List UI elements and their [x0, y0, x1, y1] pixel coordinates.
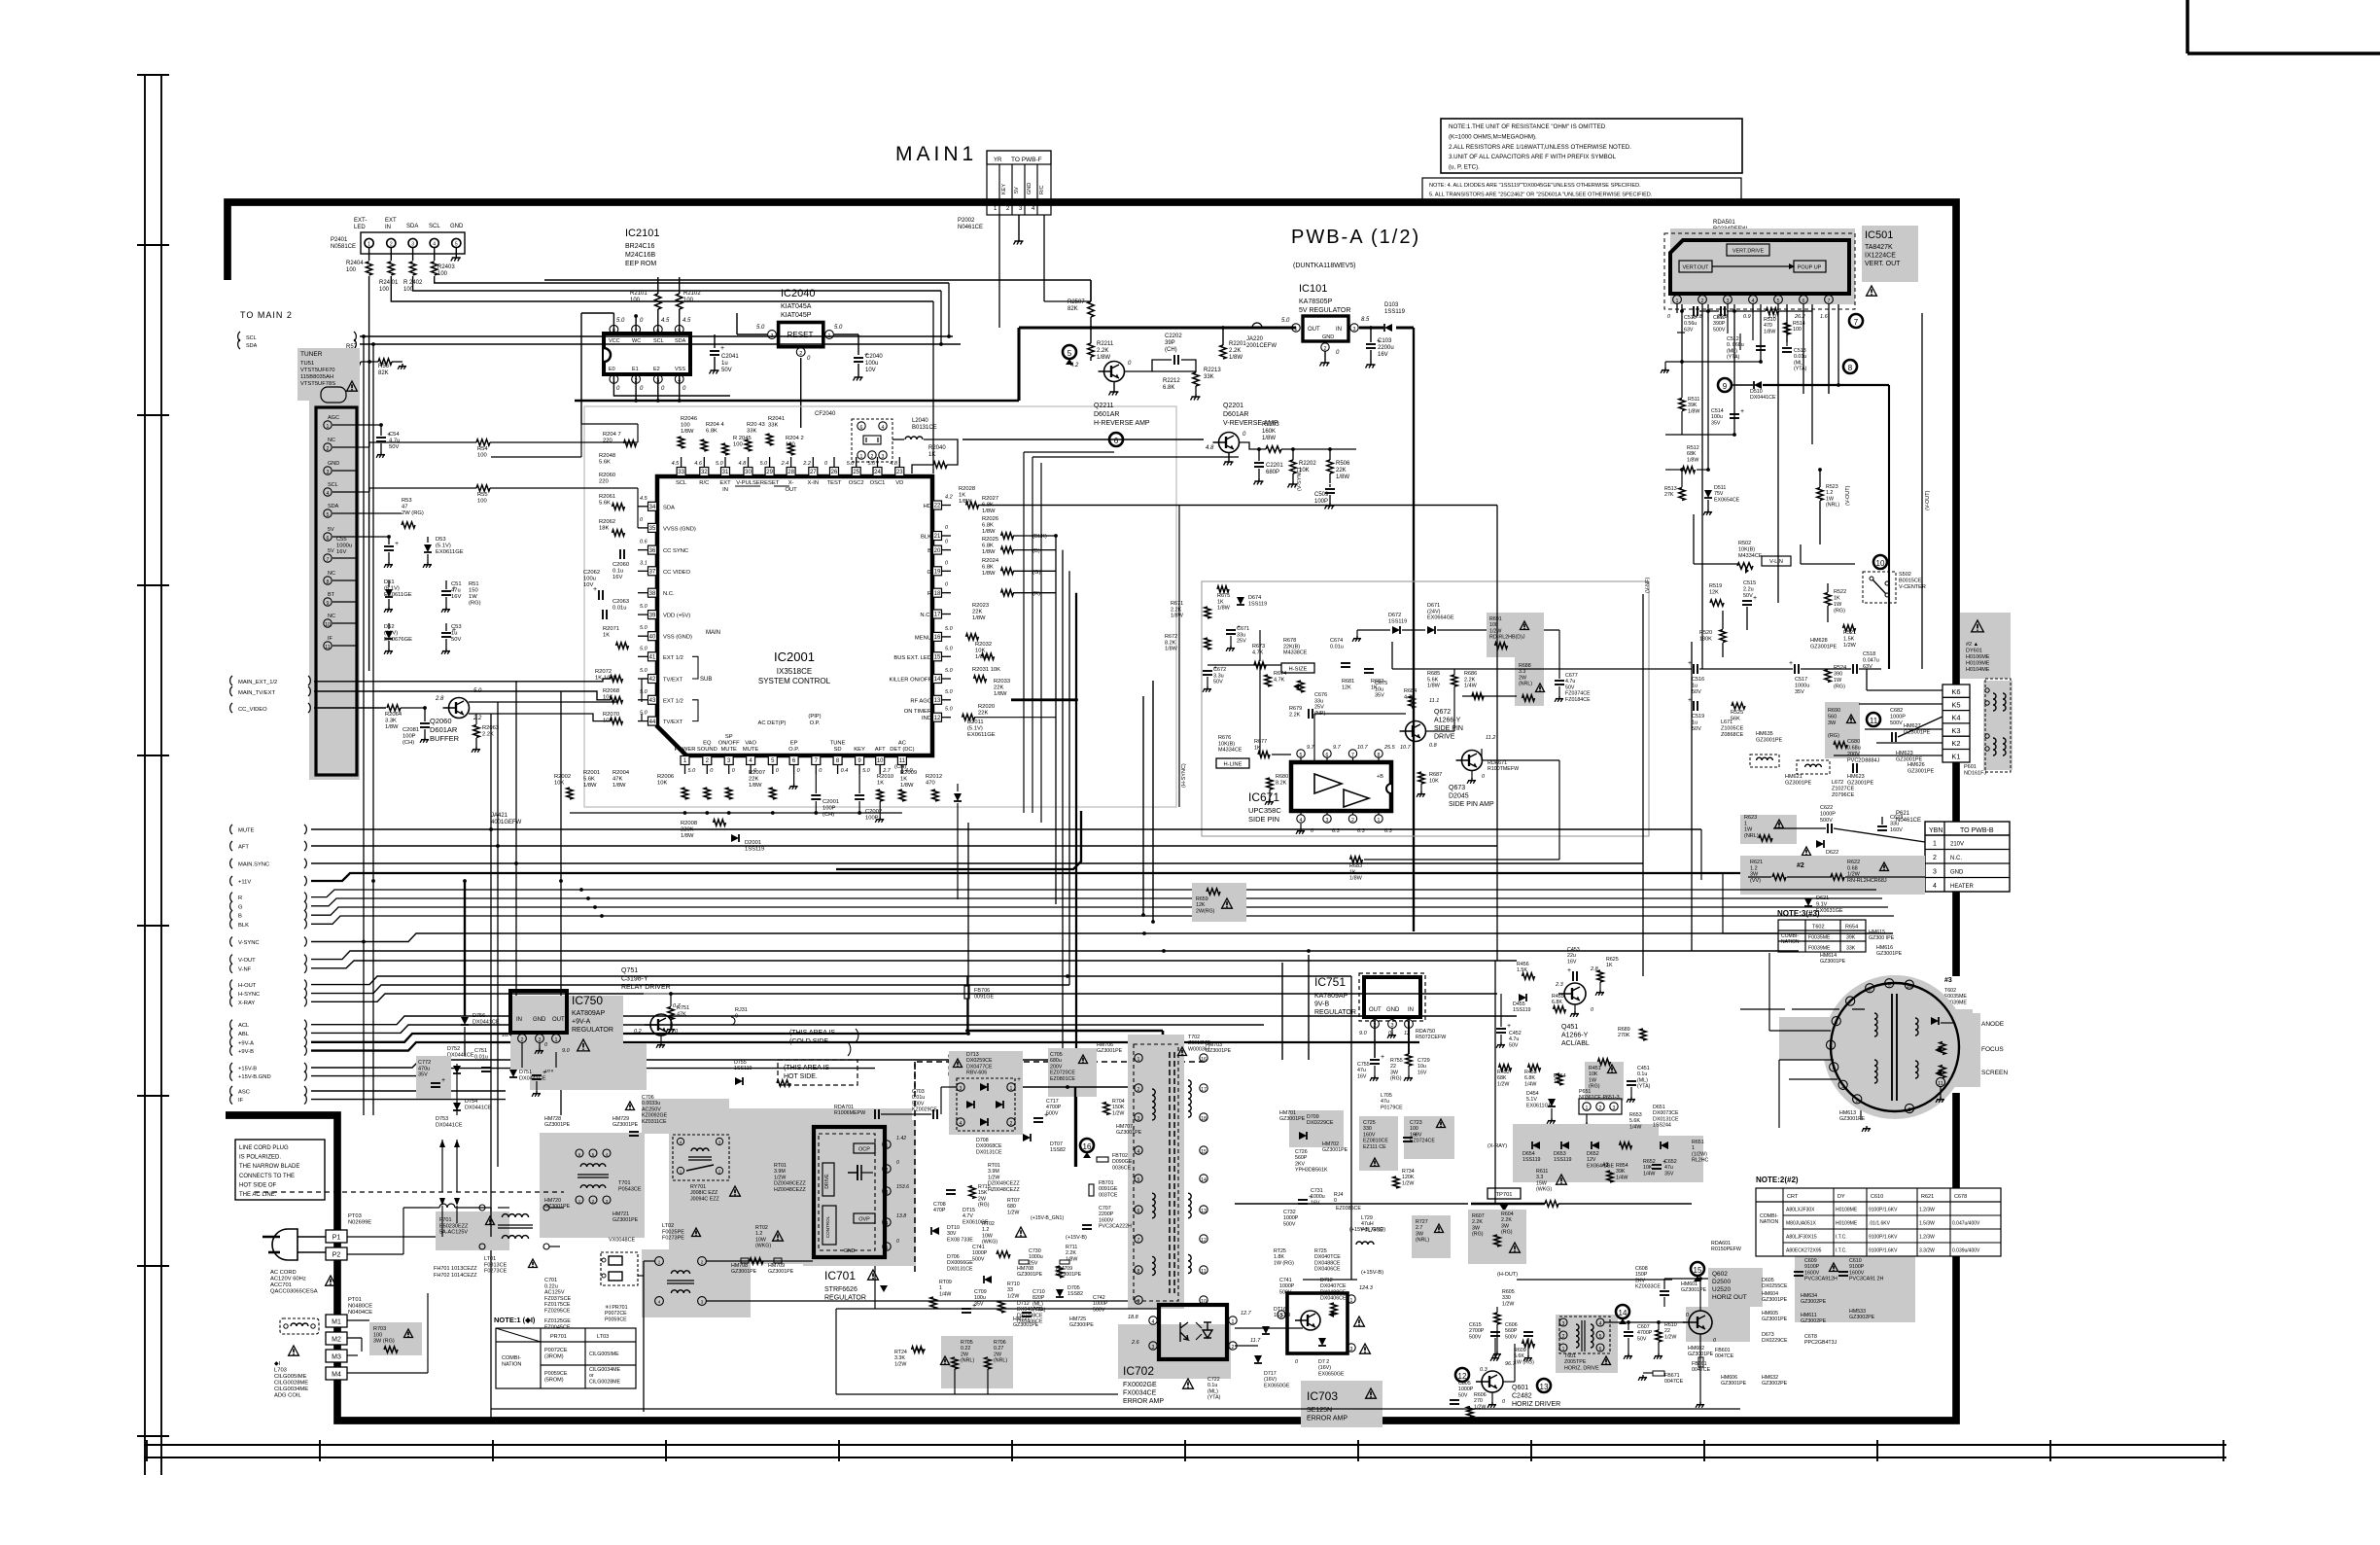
svg-text:3.9M: 3.9M: [774, 1169, 786, 1175]
resistor R2403: [434, 248, 436, 261]
svg-text:H-SIZE: H-SIZE: [1288, 667, 1307, 673]
svg-text:+: +: [1017, 1076, 1021, 1083]
resistor R2506: [1327, 460, 1333, 474]
svg-text:GZ3001PE: GZ3001PE: [612, 1122, 639, 1128]
wire bus +9V-A: [311, 1034, 968, 1042]
svg-text:R521: R521: [1843, 630, 1856, 636]
wire IC501 pin drops: [1701, 313, 1703, 669]
svg-text:C2201: C2201: [1266, 463, 1283, 469]
transistor Q601 horiz driver: [1455, 1368, 1469, 1382]
svg-text:GND: GND: [1027, 183, 1032, 194]
svg-text:DX0068CE: DX0068CE: [976, 1143, 1002, 1149]
wire bus ABL: [311, 1025, 1264, 1033]
svg-text:8.2K: 8.2K: [1165, 640, 1176, 646]
svg-text:OUT: OUT: [552, 1017, 565, 1023]
diode D103: [1384, 324, 1392, 332]
svg-text:5.6K: 5.6K: [583, 777, 595, 783]
svg-text:C607: C607: [1637, 1324, 1650, 1330]
svg-text:16.4: 16.4: [502, 1033, 512, 1038]
IC2040 RESET box: [779, 323, 823, 347]
svg-text:33K: 33K: [768, 423, 778, 429]
svg-text:FX0034CE: FX0034CE: [1123, 1390, 1157, 1397]
svg-text:R755: R755: [1390, 1058, 1403, 1064]
svg-text:D605: D605: [1762, 1278, 1774, 1283]
diode D756: [464, 881, 466, 1016]
svg-text:47u: 47u: [1357, 1068, 1366, 1073]
svg-text:0: 0: [896, 1239, 899, 1245]
wire bottom pins: [570, 812, 902, 814]
svg-text:0.6: 0.6: [640, 540, 648, 545]
resistor R2101: [655, 294, 661, 309]
svg-text:I.T.C.: I.T.C.: [1836, 1248, 1847, 1254]
svg-text:A1266-Y: A1266-Y: [1561, 1033, 1589, 1039]
svg-text:D752: D752: [447, 1046, 460, 1052]
resistor R520: [1720, 630, 1726, 643]
svg-text:(1/2W): (1/2W): [1692, 1151, 1707, 1157]
wire bus X-RAY: [311, 994, 1497, 1001]
svg-text:DX0488CE: DX0488CE: [1320, 1289, 1347, 1295]
svg-text:5: 5: [455, 242, 458, 248]
svg-text:CF2040: CF2040: [815, 411, 836, 417]
svg-text:35: 35: [649, 526, 656, 532]
wire LT02 nets: [706, 1260, 813, 1262]
svg-text:3.3K: 3.3K: [894, 1355, 905, 1361]
svg-text:1SS119: 1SS119: [1554, 1157, 1572, 1163]
svg-text:4: 4: [1933, 883, 1937, 890]
svg-text:HORIZ OUT: HORIZ OUT: [1712, 1294, 1747, 1301]
svg-text:1/2W: 1/2W: [1497, 1081, 1509, 1087]
svg-text:RT01: RT01: [774, 1163, 787, 1169]
svg-text:HM706: HM706: [1097, 1042, 1113, 1048]
svg-text:18: 18: [1201, 1116, 1207, 1122]
net stub X-RAY: [230, 997, 232, 1006]
svg-text:C2041: C2041: [721, 354, 739, 360]
svg-text:+: +: [542, 1070, 546, 1076]
svg-text:P1: P1: [332, 1235, 341, 1242]
capacitor C2002: [855, 794, 864, 796]
degauss coil L703: [280, 1318, 319, 1334]
net stub V-OUT: [230, 955, 232, 965]
svg-text:R2068: R2068: [603, 688, 619, 694]
wire: [612, 313, 614, 325]
svg-text:EX0631GE: EX0631GE: [1816, 908, 1843, 914]
svg-text:VAO: VAO: [745, 740, 756, 746]
svg-text:CC VIDEO: CC VIDEO: [663, 570, 691, 576]
svg-text:R2032: R2032: [975, 642, 992, 648]
IC501 label block: [1862, 226, 1918, 282]
net stub +9V-B: [230, 1046, 232, 1056]
svg-text:C729: C729: [1417, 1058, 1430, 1064]
coil L2040: [905, 437, 923, 439]
net stub MAIN_EXT_1/2: [230, 676, 232, 685]
svg-text:1/2W: 1/2W: [1502, 1301, 1514, 1307]
svg-text:NATION: NATION: [502, 1361, 521, 1367]
svg-text:SUB: SUB: [700, 677, 712, 683]
IC701 regulator block: [803, 1120, 916, 1266]
svg-text:#3: #3: [1602, 1163, 1609, 1169]
svg-text:S502: S502: [1899, 572, 1911, 578]
svg-text:1/8W: 1/8W: [1349, 876, 1363, 882]
svg-text:10K(B): 10K(B): [1738, 547, 1755, 553]
svg-text:DX0441CE: DX0441CE: [465, 1105, 492, 1110]
svg-text:GZ3001PE: GZ3001PE: [1762, 1317, 1788, 1322]
svg-text:R2061: R2061: [599, 494, 615, 500]
svg-text:FOCUS: FOCUS: [1981, 1046, 2004, 1053]
net stub R: [230, 893, 232, 902]
svg-text:PVC3CA912H: PVC3CA912H: [1804, 1277, 1837, 1282]
svg-text:10K: 10K: [554, 781, 564, 787]
relay RY701: [673, 1135, 729, 1180]
ferrite FBT02: [1097, 1157, 1108, 1162]
svg-text:1600V: 1600V: [1099, 1217, 1114, 1223]
svg-text:C2063: C2063: [612, 599, 629, 605]
svg-text:4.5: 4.5: [672, 461, 681, 467]
svg-text:4: 4: [960, 1121, 962, 1127]
net stub V-NF: [230, 964, 232, 973]
resistor R524: [1825, 670, 1831, 683]
svg-text:EEP ROM: EEP ROM: [625, 261, 656, 267]
svg-text:1/8W: 1/8W: [1262, 436, 1276, 441]
svg-text:1/8W: 1/8W: [982, 529, 996, 535]
svg-text:R676: R676: [1218, 735, 1231, 741]
svg-text:PT01: PT01: [348, 1297, 362, 1303]
svg-text:500V: 500V: [1713, 327, 1726, 333]
svg-text:U2520: U2520: [1712, 1286, 1732, 1293]
svg-text:+: +: [1414, 1132, 1417, 1139]
svg-text:HM721: HM721: [612, 1211, 629, 1217]
svg-text:2200P: 2200P: [1099, 1211, 1114, 1217]
svg-text:C2081: C2081: [402, 727, 419, 733]
svg-text:2W: 2W: [978, 1196, 986, 1202]
svg-text:1K: 1K: [877, 781, 884, 787]
wire: [1694, 563, 1738, 565]
svg-text:Q602: Q602: [1712, 1271, 1728, 1278]
svg-text:30: 30: [745, 470, 752, 475]
svg-text:R2211: R2211: [1097, 341, 1114, 347]
vertical bus wires left: [363, 336, 365, 1115]
svg-text:160V: 160V: [1890, 827, 1903, 833]
svg-text:GZ3001PE: GZ3001PE: [1206, 1048, 1232, 1054]
svg-text:1/8W: 1/8W: [385, 724, 399, 730]
svg-text:DX0229CE: DX0229CE: [1762, 1338, 1788, 1344]
svg-text:2.2K: 2.2K: [482, 732, 494, 738]
svg-text:+: +: [1044, 1112, 1048, 1119]
svg-text:11: 11: [1870, 717, 1878, 725]
resistor R2202: [1290, 460, 1296, 474]
capacitor C510: [1693, 306, 1695, 316]
svg-text:R625: R625: [1606, 957, 1619, 963]
svg-text:R2007: R2007: [749, 770, 765, 776]
svg-text:N0480CE: N0480CE: [348, 1304, 372, 1310]
svg-text:R2201: R2201: [1229, 341, 1246, 347]
svg-text:13: 13: [1201, 1209, 1207, 1214]
wire tuner SCL/SDA to IC2001: [637, 488, 639, 528]
svg-text:RF AGC: RF AGC: [910, 698, 931, 704]
svg-text:0.27: 0.27: [994, 1346, 1003, 1352]
svg-text:SE125N: SE125N: [1307, 1407, 1332, 1414]
wire thick to T702: [967, 1030, 1163, 1033]
svg-text:F701: F701: [439, 1217, 452, 1223]
svg-text:6: 6: [1802, 298, 1805, 304]
svg-text:VCC: VCC: [609, 338, 620, 344]
svg-text:H0109ME: H0109ME: [1836, 1221, 1858, 1227]
svg-text:2: 2: [1599, 1106, 1602, 1111]
svg-text:R706: R706: [994, 1340, 1006, 1346]
svg-text:GZ3001PE: GZ3001PE: [1097, 1048, 1123, 1054]
svg-text:1/2W: 1/2W: [1489, 628, 1501, 634]
svg-text:MUTE: MUTE: [238, 828, 255, 834]
svg-text:5.0: 5.0: [616, 318, 625, 324]
svg-text:1/8W: 1/8W: [681, 833, 694, 839]
wire: [962, 439, 1204, 440]
svg-text:L729: L729: [1361, 1215, 1373, 1221]
svg-text:470: 470: [1764, 323, 1772, 329]
svg-text:16V: 16V: [451, 594, 461, 600]
resistor R2203: [1266, 446, 1281, 452]
svg-text:R53: R53: [402, 498, 412, 504]
svg-text:5V: 5V: [1014, 187, 1020, 193]
svg-text:KEY: KEY: [1001, 184, 1007, 194]
svg-text:DX0441CE: DX0441CE: [1750, 395, 1776, 401]
svg-text:C622: C622: [1820, 805, 1833, 811]
svg-text:2W: 2W: [961, 1352, 968, 1357]
svg-text:IND: IND: [922, 716, 931, 721]
svg-text:0047CE: 0047CE: [1692, 1367, 1711, 1373]
svg-text:10K: 10K: [1589, 1071, 1598, 1077]
svg-text:P0543CE: P0543CE: [618, 1186, 642, 1192]
svg-text:GZ3002PE: GZ3002PE: [1801, 1318, 1827, 1324]
gray patch AC area 4: [642, 1249, 751, 1317]
capacitor C680: [1852, 763, 1854, 773]
svg-text:25.5: 25.5: [1383, 745, 1396, 751]
svg-text:Q451: Q451: [1561, 1024, 1578, 1031]
svg-text:R704: R704: [1112, 1099, 1125, 1105]
svg-text:1/2W: 1/2W: [1007, 1293, 1019, 1299]
svg-text:25V: 25V: [1029, 1260, 1038, 1266]
net stub MAIN.SYNC: [230, 859, 232, 868]
svg-text:C518: C518: [1863, 651, 1875, 657]
svg-text:(CH): (CH): [402, 740, 414, 746]
capacitor C682: [1891, 732, 1893, 742]
svg-text:GZ3001PE: GZ3001PE: [1688, 1352, 1714, 1357]
svg-text:1K: 1K: [959, 493, 965, 499]
net stub IF: [230, 1095, 232, 1105]
svg-text:R2031 10K: R2031 10K: [972, 667, 1000, 673]
svg-text:10V: 10V: [865, 368, 876, 373]
svg-text:R2060: R2060: [599, 473, 615, 478]
svg-text:R2071: R2071: [603, 626, 619, 632]
wire power section: [836, 1308, 1159, 1310]
wire horizontal 5V bus: [575, 400, 1019, 403]
svg-text:KEY: KEY: [854, 747, 865, 753]
svg-text:500V: 500V: [972, 1256, 985, 1262]
svg-text:RDA601: RDA601: [1711, 1241, 1731, 1247]
svg-text:HM611: HM611: [1801, 1313, 1817, 1318]
svg-text:33K: 33K: [747, 429, 756, 435]
svg-text:I.T.C.: I.T.C.: [1836, 1235, 1847, 1241]
svg-text:5.0: 5.0: [945, 626, 954, 632]
svg-text:(16V): (16V): [1264, 1377, 1277, 1383]
svg-text:4.2: 4.2: [945, 495, 953, 501]
op-amp IC671: [1291, 762, 1391, 811]
svg-text:50V: 50V: [1692, 689, 1701, 695]
svg-text:2.ALL RESISTORS ARE 1/16WATT,U: 2.ALL RESISTORS ARE 1/16WATT,UNLESS OTHE…: [1449, 144, 1631, 151]
svg-text:210V: 210V: [1950, 842, 1964, 848]
svg-text:5.0: 5.0: [862, 768, 871, 774]
svg-text:R688: R688: [1519, 663, 1531, 669]
svg-text:(RG): (RG): [1828, 733, 1839, 739]
gray patch xray diodes: [1513, 1124, 1659, 1182]
svg-text:C677: C677: [1565, 673, 1578, 679]
svg-text:8: 8: [1137, 1269, 1140, 1275]
svg-text:1.5/3W: 1.5/3W: [1919, 1221, 1935, 1227]
connector P2: [326, 1247, 347, 1260]
svg-text:PT03: PT03: [348, 1213, 362, 1219]
net stub SCL: [238, 332, 240, 341]
wire right vertical bus: [1055, 536, 1057, 904]
svg-text:(DUNTKA118WEV5): (DUNTKA118WEV5): [1293, 263, 1355, 269]
svg-text:21: 21: [934, 534, 941, 540]
svg-text:1000P: 1000P: [1820, 812, 1836, 818]
capacitor C672: [1203, 670, 1212, 672]
svg-text:3.3: 3.3: [1536, 1175, 1543, 1180]
wire Q2060 outputs: [641, 679, 643, 702]
svg-text:(ML): (ML): [1727, 348, 1737, 354]
svg-text:VTST5UF670: VTST5UF670: [300, 368, 334, 373]
svg-text:N02699E: N02699E: [348, 1220, 371, 1226]
svg-text:H-LINE: H-LINE: [1223, 762, 1242, 768]
svg-text:1W: 1W: [1744, 827, 1753, 833]
svg-text:IC2001: IC2001: [774, 650, 815, 664]
svg-text:1u: 1u: [1692, 684, 1697, 689]
svg-text:R680: R680: [1276, 774, 1288, 780]
svg-text:HM606: HM606: [1721, 1375, 1737, 1381]
svg-text:NOTE: 4. ALL DIODES ARE "1SS11: NOTE: 4. ALL DIODES ARE "1SS119""DX0045G…: [1429, 183, 1641, 189]
svg-text:QACC03065CESA: QACC03065CESA: [270, 1289, 318, 1295]
svg-text:P2401: P2401: [331, 237, 348, 243]
net stub SDA: [238, 339, 240, 349]
svg-text:4: 4: [1300, 818, 1303, 824]
svg-text:26: 26: [831, 470, 838, 475]
svg-text:C452: C452: [1509, 1031, 1522, 1036]
svg-text:22K: 22K: [1336, 468, 1347, 474]
diode D653: [1561, 1141, 1569, 1149]
svg-text:1/8W: 1/8W: [1171, 614, 1184, 619]
svg-text:50V: 50V: [1213, 680, 1223, 685]
svg-text:39K: 39K: [1616, 1169, 1626, 1175]
svg-text:R2046: R2046: [681, 416, 697, 422]
svg-text:CC SYNC: CC SYNC: [663, 548, 688, 554]
svg-text:2.2: 2.2: [472, 716, 482, 721]
net stub +15V-B.GND: [230, 1071, 232, 1081]
svg-text:+15V-B.GND: +15V-B.GND: [238, 1074, 271, 1080]
wire: [737, 334, 767, 335]
svg-text:42: 42: [649, 677, 656, 683]
svg-text:TP701: TP701: [1495, 1192, 1512, 1198]
svg-text:RESET: RESET: [760, 480, 780, 486]
svg-text:GND: GND: [450, 224, 464, 229]
svg-text:+: +: [720, 345, 724, 352]
gray block DY601: [1960, 613, 2011, 679]
svg-text:R524: R524: [1834, 665, 1846, 671]
svg-text:(X-RAY): (X-RAY): [1487, 1143, 1507, 1149]
svg-text:100P: 100P: [402, 734, 416, 740]
svg-text:PVC2D8884J: PVC2D8884J: [1847, 758, 1880, 764]
svg-text:HM601: HM601: [1681, 1282, 1697, 1287]
svg-text:UPC358C: UPC358C: [1248, 806, 1281, 815]
svg-text:N0581CE: N0581CE: [331, 244, 356, 250]
svg-text:(5.1V): (5.1V): [384, 586, 400, 592]
svg-text:0: 0: [896, 1160, 899, 1166]
svg-text:E1: E1: [632, 367, 639, 372]
svg-text:Z0868CE: Z0868CE: [1721, 732, 1744, 738]
svg-text:F0273CE: F0273CE: [484, 1269, 507, 1275]
svg-text:120K: 120K: [1402, 1175, 1415, 1180]
svg-text:EX0610GE: EX0610GE: [962, 1219, 989, 1225]
svg-text:2: 2: [327, 446, 330, 452]
svg-text:R691: R691: [1489, 616, 1502, 622]
coil L671: [1750, 755, 1779, 767]
svg-text:HOT SIDE OF: HOT SIDE OF: [239, 1182, 277, 1188]
svg-text:HM701: HM701: [1279, 1110, 1296, 1116]
svg-text:1SS82: 1SS82: [1050, 1147, 1066, 1153]
svg-text:C2040: C2040: [865, 354, 883, 360]
svg-text:200V: 200V: [1847, 752, 1860, 757]
wire P2002 drops: [998, 215, 1000, 328]
svg-text:15: 15: [1201, 1149, 1207, 1155]
svg-text:KZ0033CE: KZ0033CE: [1635, 1284, 1661, 1290]
svg-text:(16V): (16V): [1318, 1365, 1331, 1371]
svg-text:CILG0034ME: CILG0034ME: [589, 1367, 621, 1373]
wire: [1653, 668, 1692, 670]
svg-text:3.3: 3.3: [1519, 669, 1525, 675]
svg-text:3: 3: [1137, 1116, 1140, 1122]
svg-text:KILLER ON/OFF: KILLER ON/OFF: [890, 678, 932, 684]
svg-text:50V: 50V: [1565, 685, 1575, 690]
svg-text:0.01u: 0.01u: [612, 606, 627, 612]
resistor R607: [1468, 1210, 1526, 1264]
svg-text:5V: 5V: [328, 548, 334, 554]
svg-text:GZ3001PE: GZ3001PE: [1017, 1272, 1043, 1278]
svg-text:0.68: 0.68: [1847, 865, 1858, 871]
svg-text:(R): (R): [1032, 591, 1040, 597]
svg-text:(PIP): (PIP): [808, 714, 821, 720]
svg-text:2.2K: 2.2K: [1289, 712, 1301, 718]
svg-text:R611: R611: [1536, 1169, 1548, 1175]
svg-text:DX0488CE: DX0488CE: [1017, 1313, 1043, 1318]
svg-text:R2024: R2024: [982, 558, 999, 564]
wire IC671 area: [1259, 665, 1261, 755]
svg-text:4: 4: [1833, 1067, 1836, 1072]
svg-text:2W: 2W: [994, 1352, 1001, 1357]
transistor Q451 ACL/ABL: [1564, 983, 1586, 1004]
svg-text:HM621: HM621: [1785, 774, 1802, 780]
svg-text:680: 680: [1007, 1204, 1016, 1210]
svg-text:KIAT045P: KIAT045P: [781, 312, 812, 319]
error amp block left: [1287, 1293, 1347, 1353]
svg-text:50V: 50V: [389, 444, 399, 450]
svg-text:SCREEN: SCREEN: [1981, 1070, 2008, 1076]
node 10: [1873, 555, 1887, 569]
svg-text:(V-SYNC): (V-SYNC): [1297, 468, 1303, 491]
gray patch R691 R688: [1487, 613, 1544, 706]
svg-text:IC671: IC671: [1248, 790, 1279, 804]
svg-text:1/2W: 1/2W: [894, 1361, 906, 1367]
wire right-bottom routing: [1303, 1279, 1357, 1281]
svg-text:D652: D652: [1587, 1151, 1599, 1157]
svg-text:R2072: R2072: [595, 669, 612, 675]
svg-text:C513: C513: [1794, 348, 1806, 354]
